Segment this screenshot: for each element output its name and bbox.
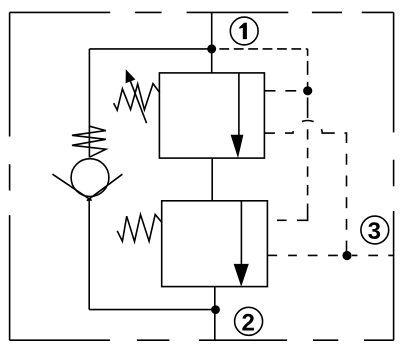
node junction dot port1 bbox=[207, 44, 216, 53]
pilot corner piece bbox=[345, 133, 347, 143]
spring V1 adjustable bbox=[114, 84, 160, 111]
wire port1 vertical bbox=[211, 12, 213, 73]
boundary top bbox=[10, 11, 394, 13]
pilot line down to node C (dashed) bbox=[346, 154, 348, 256]
pilot corner to valve V2 (dashed) bbox=[297, 204, 308, 221]
wire left vertical to relief valve bbox=[88, 49, 90, 157]
pilot line V2 stub to node C (dashed) bbox=[288, 254, 338, 256]
boundary left bbox=[9, 12, 11, 340]
adjustment arrow V1 bbox=[131, 81, 147, 123]
svg-text:2: 2 bbox=[242, 309, 255, 336]
valve V1 body box bbox=[159, 73, 264, 158]
spring relief valve bbox=[72, 126, 106, 157]
stub V1 lower right bbox=[264, 132, 275, 134]
boundary bottom bbox=[10, 339, 394, 341]
port label 3 bbox=[361, 216, 389, 244]
valve V1 flow arrow bbox=[238, 73, 240, 136]
wire between valves bbox=[211, 158, 213, 201]
valve V2 body box bbox=[162, 201, 268, 287]
wire bottom horizontal bbox=[89, 309, 215, 311]
pilot line node B down (dashed) bbox=[307, 98, 309, 196]
svg-text:3: 3 bbox=[368, 218, 381, 245]
wire port2 vertical bbox=[214, 287, 216, 341]
node pilot junction B bbox=[303, 86, 312, 95]
wire relief valve down bbox=[88, 199, 90, 310]
stub V1 upper right bbox=[264, 90, 275, 92]
port label 2 bbox=[235, 307, 263, 335]
spring V2 bbox=[117, 215, 162, 242]
relief valve ball bbox=[71, 159, 109, 197]
node pilot junction C bbox=[342, 251, 351, 260]
pilot line port1 to corner (dashed) bbox=[219, 48, 307, 50]
pilot line corner down to node B (dashed) bbox=[307, 49, 309, 91]
pilot dash stub to node B bbox=[285, 90, 296, 92]
pilot line V1 lower stub with crossover hop (dashed) bbox=[285, 121, 347, 134]
relief valve seat bbox=[53, 174, 123, 201]
port label 1 bbox=[230, 17, 258, 45]
node junction dot port2 bbox=[211, 305, 220, 314]
boundary right bbox=[393, 12, 395, 340]
valve V2 flow arrow bbox=[240, 201, 242, 265]
wire top horizontal to left branch bbox=[89, 48, 211, 50]
stub V2 lower right bbox=[267, 254, 277, 256]
pilot line node C to boundary port3 (dashed) bbox=[352, 254, 394, 256]
